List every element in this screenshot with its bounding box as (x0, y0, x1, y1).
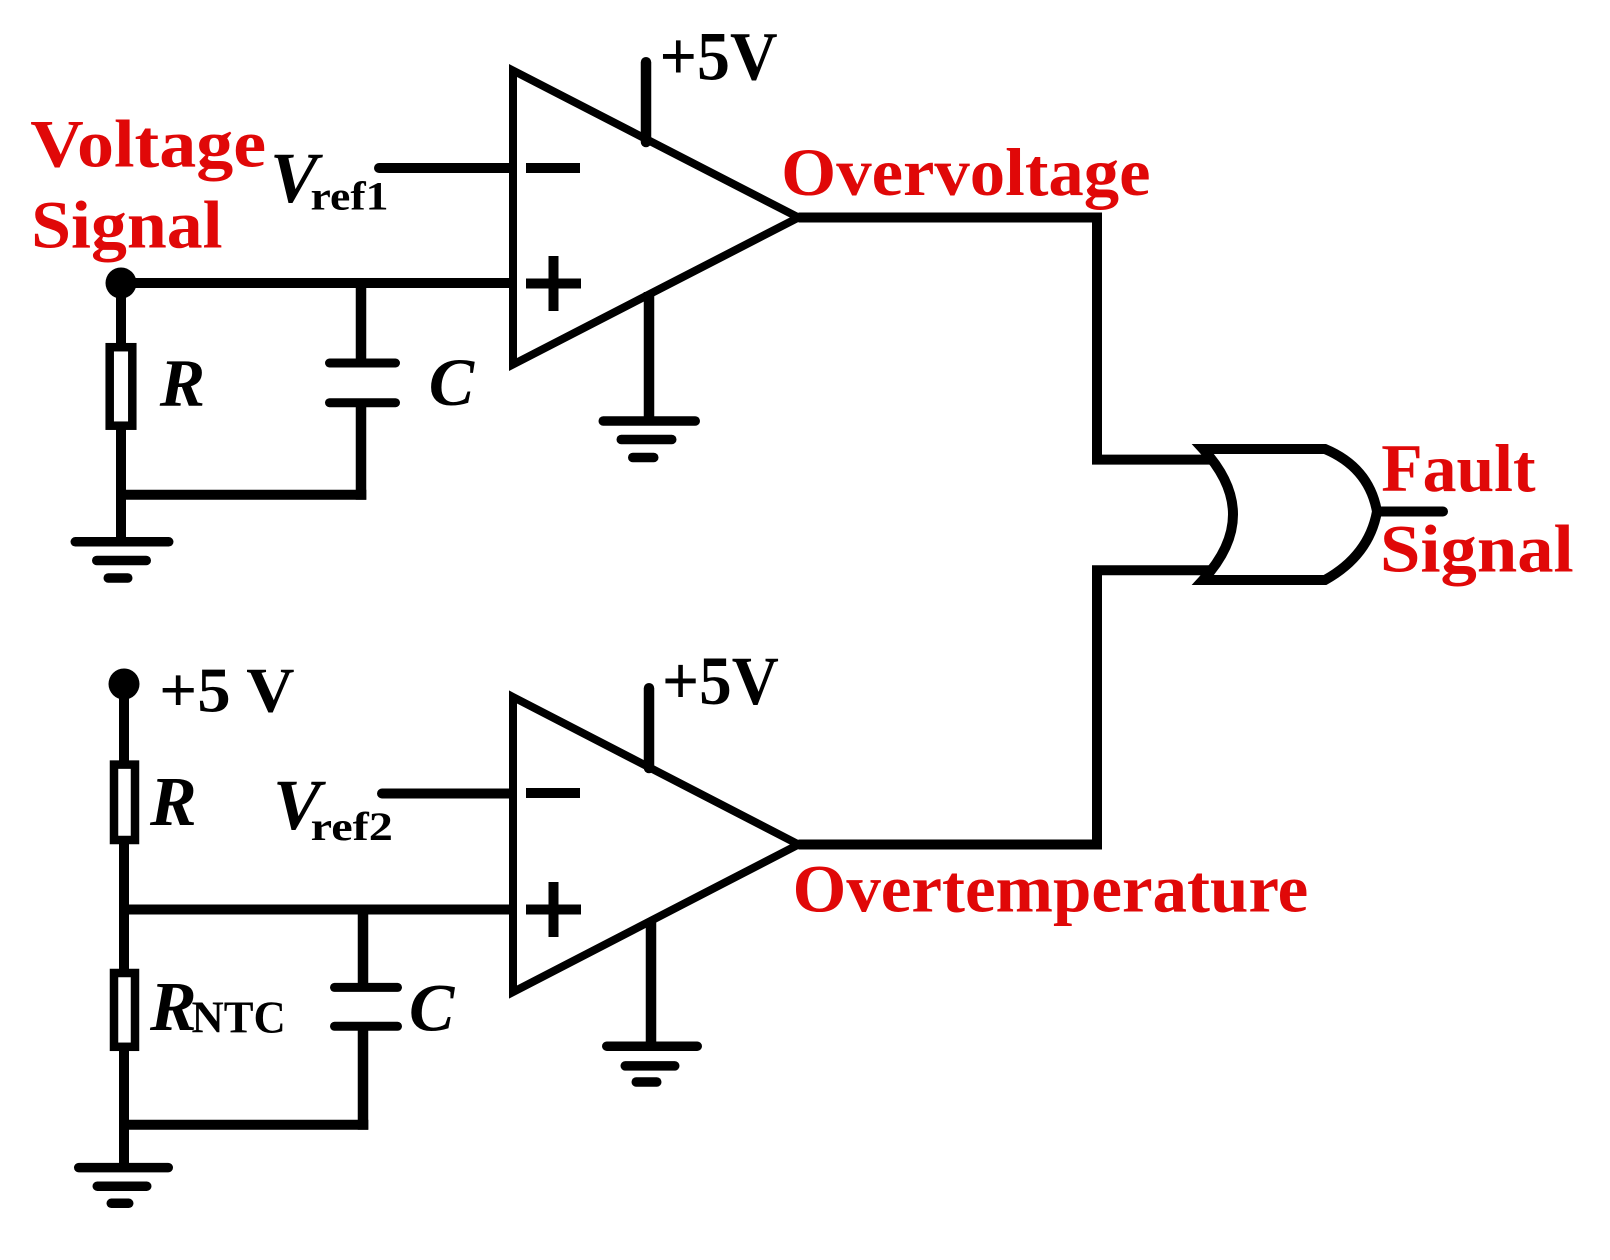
svg-text:ref1: ref1 (311, 174, 389, 219)
U1 ground pin (644, 292, 655, 421)
op-amp U2 (overtemperature comparator) (513, 697, 799, 992)
capacitor C (top circuit) (330, 283, 396, 500)
svg-text:Overvoltage: Overvoltage (781, 134, 1150, 210)
label: Voltage Signal (red) (30, 105, 266, 262)
svg-text:Overtemperature: Overtemperature (793, 851, 1309, 927)
svg-text:+5V: +5V (660, 19, 778, 95)
OR gate U3 (1203, 449, 1377, 580)
wire: U2 output (Overtemperature) to OR gate bottom input (799, 570, 1214, 844)
label Vref2 (273, 765, 393, 849)
label Vref1 (270, 138, 389, 218)
svg-text:Signal: Signal (1380, 511, 1574, 587)
wire: bottom horizontal joining R_NTC leg and C leg (bottom) (124, 1120, 368, 1130)
wire: OR gate output (Fault Signal) (1378, 507, 1443, 517)
svg-text:C: C (409, 970, 455, 1046)
U2 inverting input symbol (minus) (526, 788, 580, 798)
wire: Vref2 to op-amp U2 inverting input (382, 789, 516, 799)
capacitor C (bottom circuit) (335, 910, 398, 1130)
wire: node A down to resistor R top (116, 283, 126, 348)
wire: junction to op-amp U2 non-inverting input (124, 905, 516, 915)
label Fault Signal (red) (1380, 430, 1574, 587)
svg-text:R: R (149, 969, 197, 1046)
wire: Vref1 to op-amp U1 inverting input (379, 163, 516, 173)
svg-text:Signal: Signal (31, 187, 223, 263)
ground (below R, top circuit) (75, 542, 169, 578)
U1 non-inverting input symbol (plus) (526, 256, 581, 311)
svg-text:R: R (159, 345, 205, 421)
wire: R bottom through junction to R_NTC top (119, 840, 129, 973)
wire: R_NTC bottom to ground (119, 1047, 129, 1168)
op-amp U1 (overvoltage comparator) (513, 71, 799, 365)
label R_NTC (149, 969, 286, 1046)
svg-text:C: C (429, 344, 475, 420)
node A: Voltage Signal input dot (106, 268, 137, 299)
wire: U1 output (Overvoltage) to OR gate top input (799, 218, 1214, 460)
wire: node B down to resistor R bottom-circuit (119, 684, 129, 765)
svg-text:Voltage: Voltage (30, 105, 266, 181)
ground (below U1) (603, 421, 695, 458)
wire: node A to op-amp U1 non-inverting input (121, 278, 516, 288)
wire: resistor R bottom to ground (116, 429, 126, 542)
U2 ground pin (646, 919, 657, 1046)
resistor R_NTC (114, 973, 135, 1047)
ground (below R_NTC) (79, 1168, 169, 1204)
U1 inverting input symbol (minus) (526, 163, 580, 173)
svg-text:Fault: Fault (1381, 430, 1536, 506)
U2 +5V supply pin (644, 688, 655, 768)
U1 +5V supply pin (641, 62, 652, 142)
U2 non-inverting input symbol (plus) (526, 882, 581, 937)
ground (below U2) (607, 1046, 698, 1082)
wire: bottom horizontal joining R leg and C leg (121, 490, 366, 500)
resistor R (top circuit) (110, 347, 133, 426)
svg-text:+5 V: +5 V (159, 656, 294, 726)
node B: +5 V supply dot (bottom circuit) (109, 669, 140, 700)
svg-text:NTC: NTC (192, 993, 286, 1043)
resistor R (bottom circuit) (114, 765, 135, 840)
svg-text:ref2: ref2 (311, 804, 393, 849)
svg-text:+5V: +5V (662, 643, 779, 719)
svg-text:R: R (149, 764, 197, 841)
